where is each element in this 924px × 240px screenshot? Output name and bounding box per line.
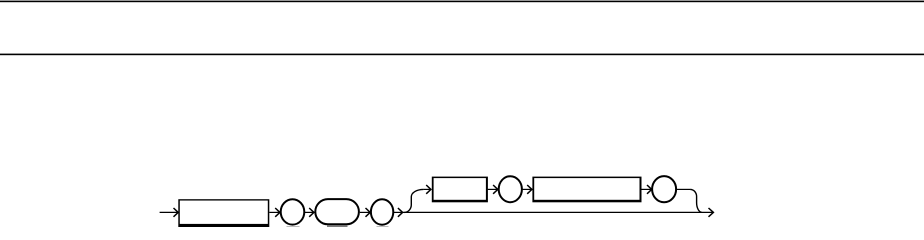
wire entry	[160, 211, 178, 213]
arrowhead exit right	[709, 208, 714, 217]
box B1 outer with bottom shadow	[178, 199, 269, 227]
stadium S1	[315, 199, 359, 224]
horizontal rule top	[0, 1, 924, 3]
wire merge curve down	[690, 189, 702, 212]
ellipse E1 shadow	[287, 225, 300, 228]
wire E1 to stadium S1	[304, 211, 313, 213]
ellipse E2 shadow	[377, 225, 389, 228]
ellipse E1	[281, 199, 305, 224]
wire main bypass line	[403, 211, 714, 213]
wire E3 to B3	[522, 188, 532, 190]
arrowhead into ellipse E3	[493, 185, 498, 194]
arrowhead into ellipse E4	[647, 185, 652, 194]
box B3	[532, 177, 641, 203]
box B1 inner	[180, 201, 268, 224]
arrowhead into box B1	[174, 208, 179, 217]
arrowhead into box B2	[426, 185, 431, 194]
wire split curve up	[404, 189, 423, 212]
horizontal rule second	[0, 54, 924, 56]
arrowhead on main line at split	[398, 208, 403, 217]
arrowhead into box B3	[527, 185, 532, 194]
box B2	[432, 177, 488, 203]
wire B3 to E4	[641, 188, 651, 190]
wire B1 to E1	[269, 211, 279, 213]
box B3 inner	[534, 178, 639, 200]
ellipse E4	[652, 176, 676, 202]
arrowhead into ellipse E1	[275, 208, 280, 217]
ellipse E2	[371, 199, 393, 224]
wire B2 to E3	[488, 188, 498, 190]
arrowhead into stadium S1	[309, 208, 314, 217]
wire S1 to E2	[360, 211, 370, 213]
box B2 inner	[434, 178, 486, 200]
ellipse E3	[499, 176, 522, 202]
wire E4 to merge	[676, 188, 690, 190]
wire E2 to split	[393, 211, 402, 213]
stadium S1 shadow	[327, 225, 348, 227]
arrowhead into ellipse E2	[366, 208, 371, 217]
wire branch start	[423, 188, 430, 190]
